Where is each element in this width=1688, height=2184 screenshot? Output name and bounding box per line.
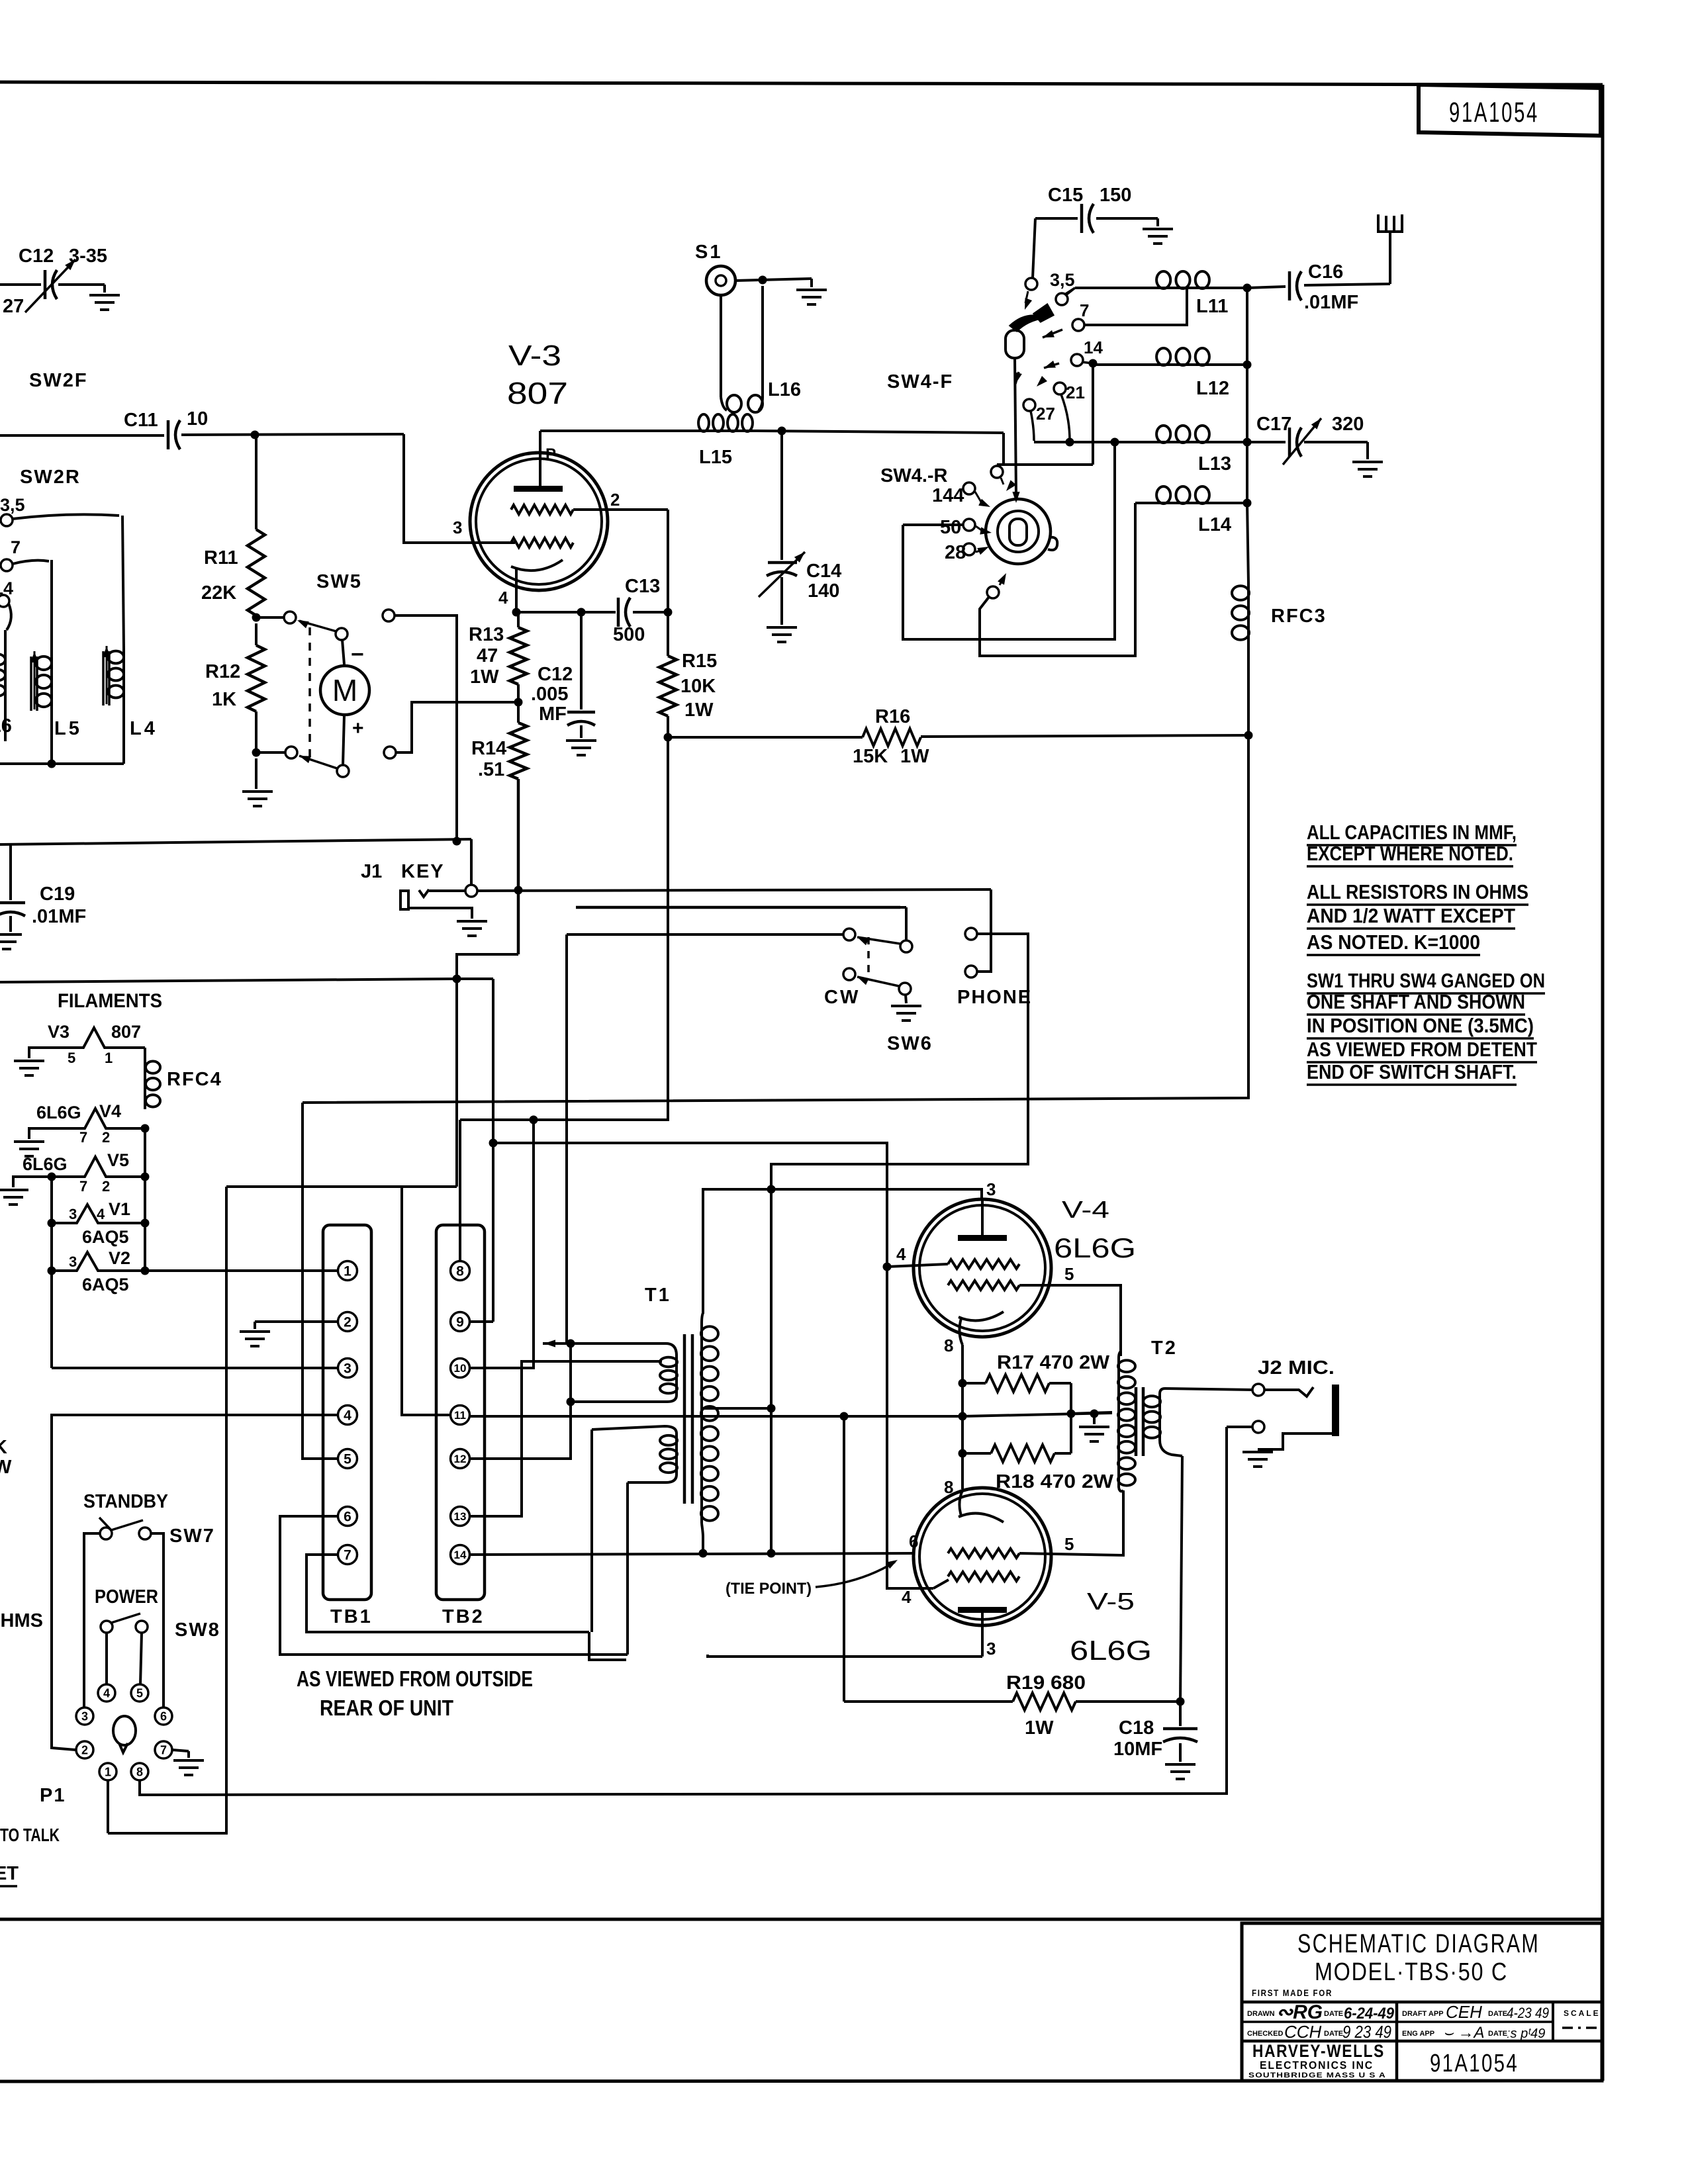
svg-text:6-24-49: 6-24-49 <box>1344 2005 1395 2023</box>
svg-text:R19 680: R19 680 <box>1006 1672 1086 1694</box>
wire R17 R18 right link <box>1070 1383 1072 1453</box>
tube V5 6L6G envelope <box>914 1488 1051 1625</box>
switch SW6 upper pole <box>843 929 855 940</box>
coil L16 link <box>720 295 722 397</box>
svg-text:SW7: SW7 <box>169 1525 215 1547</box>
svg-text:8: 8 <box>944 1336 953 1355</box>
resistor R11 22K <box>248 529 265 615</box>
switch SW4-R rotor <box>986 499 1051 564</box>
svg-text:ALL CAPACITIES IN MMF,: ALL CAPACITIES IN MMF, <box>1307 821 1517 844</box>
grid 1 of V3 <box>511 538 573 547</box>
choke RFC4 <box>144 1048 146 1059</box>
svg-text:3: 3 <box>81 1710 88 1723</box>
wire V4 pin 5 to T2 <box>1019 1285 1121 1356</box>
coil L13 <box>1034 441 1154 443</box>
resistor R15 10K 1W <box>667 612 669 656</box>
grid of V4 <box>948 1259 1019 1269</box>
wire TB2-8 up to screen rail <box>459 1120 461 1261</box>
pin P1-3 <box>76 1707 93 1725</box>
wire SW4F y702 <box>997 463 1093 466</box>
pin P1-8 <box>131 1763 148 1780</box>
svg-text:C16: C16 <box>1308 261 1343 283</box>
svg-text:4: 4 <box>103 1687 110 1700</box>
wire plate to L15 <box>540 430 696 432</box>
svg-text:10K: 10K <box>680 676 716 697</box>
pin P1-2 <box>76 1741 93 1758</box>
svg-text:L13: L13 <box>1198 453 1231 475</box>
svg-text:SW4-F: SW4-F <box>887 371 953 392</box>
title table lines <box>1242 2001 1602 2004</box>
svg-text:R11: R11 <box>204 547 238 569</box>
wire cathode row <box>516 611 616 614</box>
svg-text:DATE: DATE <box>1488 2030 1507 2038</box>
terminal TB1-3 <box>338 1359 357 1378</box>
svg-text:SCALE: SCALE <box>1564 2009 1601 2018</box>
wire L15 to SW4 <box>755 431 1004 433</box>
wire SW6 arm up <box>905 907 908 940</box>
svg-text:POWER: POWER <box>95 1586 158 1608</box>
choke RFC3 <box>1247 503 1248 583</box>
wire J2 sleeve ground <box>1258 1433 1332 1449</box>
resistor R19 680 1W <box>844 1700 1013 1703</box>
cathode of V5 <box>959 1514 1004 1522</box>
terminal TB2-10 <box>451 1359 470 1378</box>
svg-text:AS NOTED. K=1000: AS NOTED. K=1000 <box>1307 931 1480 954</box>
svg-text:RFC3: RFC3 <box>1271 606 1327 627</box>
tube V3 807 envelope <box>470 453 608 590</box>
coil L6 clipped <box>4 630 7 652</box>
T1 plate winding <box>700 1324 703 1524</box>
node R13 R14 junction <box>514 698 523 707</box>
wire junction to R11 <box>255 435 258 529</box>
ground at T2 center <box>1093 1414 1096 1424</box>
svg-text:.51: .51 <box>478 759 504 780</box>
grid 2 of V3 <box>511 505 573 514</box>
capacitor C12 .005 MF bypass <box>580 612 583 709</box>
svg-text:T1: T1 <box>645 1285 671 1306</box>
svg-text:5: 5 <box>1064 1264 1074 1284</box>
wire cathode bus V4 V5 <box>961 1345 964 1489</box>
svg-text:DRAFT APP: DRAFT APP <box>1402 2010 1444 2018</box>
wire pin2 node down <box>667 510 669 612</box>
resistor R18 470 2W <box>962 1452 991 1455</box>
svg-text:ALL RESISTORS IN OHMS: ALL RESISTORS IN OHMS <box>1307 880 1528 903</box>
wire to SW5 upper contact <box>256 616 284 619</box>
svg-text:AS VIEWED FROM DETENT: AS VIEWED FROM DETENT <box>1307 1038 1537 1061</box>
svg-text:12: 12 <box>454 1453 467 1465</box>
svg-text:STANDBY: STANDBY <box>83 1491 168 1512</box>
node RFC4 bottom <box>141 1124 150 1133</box>
svg-text:P1: P1 <box>40 1785 66 1806</box>
wire screen feed down <box>460 737 668 1120</box>
svg-text:L5: L5 <box>54 718 82 739</box>
wire TB2-11 right to audio junctions <box>469 1413 1112 1416</box>
wire C11 to corner <box>181 434 404 435</box>
svg-text:SW8: SW8 <box>175 1619 220 1641</box>
capacitor C17 320 variable <box>1247 441 1286 443</box>
svg-text:V-4: V-4 <box>1062 1196 1109 1223</box>
wire C15 to rotor contact <box>1033 218 1035 278</box>
wire P1-7 to ground <box>172 1750 189 1751</box>
svg-text:DATE: DATE <box>1488 2010 1507 2018</box>
wire coil return rail <box>0 762 124 765</box>
contact 14 of SW4-F <box>1071 354 1083 366</box>
T1 secondary left bottom lead <box>628 1475 677 1482</box>
svg-text:SW2F: SW2F <box>29 370 88 391</box>
svg-text:4: 4 <box>902 1587 912 1607</box>
T2 secondary top to J2 <box>1160 1388 1252 1394</box>
dashed gang link SW5 <box>308 627 311 762</box>
node C12 branch <box>577 608 586 617</box>
svg-text:91A1054: 91A1054 <box>1449 97 1539 128</box>
wire T1 sec bottom down <box>626 1482 629 1655</box>
svg-text:9: 9 <box>456 1315 464 1330</box>
wire TB2-13 to T1 primary top <box>469 1361 662 1516</box>
wire TB1-7 staircase <box>306 1555 589 1632</box>
svg-text:47: 47 <box>477 645 498 666</box>
svg-text:8: 8 <box>944 1477 953 1497</box>
svg-text:1W: 1W <box>470 666 499 688</box>
svg-text:R15: R15 <box>682 651 717 672</box>
svg-text:2: 2 <box>344 1315 352 1330</box>
drawing frame lower margin line <box>0 2081 1603 2081</box>
svg-text:ONE SHAFT AND SHOWN: ONE SHAFT AND SHOWN <box>1307 990 1525 1013</box>
node rail nine <box>489 1139 498 1148</box>
wire J2 ring to P1-8 <box>140 1427 1227 1795</box>
svg-text:2: 2 <box>102 1178 110 1195</box>
svg-text:SOUTHBRIDGE MASS U S A: SOUTHBRIDGE MASS U S A <box>1248 2071 1386 2079</box>
wire T1 sec top down <box>590 1430 593 1632</box>
svg-text:V-3: V-3 <box>508 340 561 372</box>
wire P1-1 to relay bus <box>107 1780 109 1833</box>
svg-text:HARVEY-WELLS: HARVEY-WELLS <box>1252 2041 1385 2061</box>
svg-text:R13: R13 <box>469 624 504 645</box>
wire phone upper to audio <box>771 934 1028 1553</box>
wire rotor stem SW4F to SW4R <box>1015 358 1016 495</box>
T1 core <box>683 1334 686 1504</box>
svg-text:10MF: 10MF <box>1113 1739 1162 1760</box>
svg-text:(TIE POINT): (TIE POINT) <box>726 1580 812 1598</box>
svg-text:T2: T2 <box>1151 1338 1178 1359</box>
svg-text:4: 4 <box>896 1244 906 1264</box>
capacitor C11 10 <box>167 420 170 449</box>
terminal TB1-7 <box>338 1545 357 1565</box>
cathode lead pin 4 <box>515 568 518 611</box>
pin P1-1 <box>99 1763 117 1780</box>
connector S1 <box>706 266 735 295</box>
wire SW7 right to P1-6 <box>151 1533 164 1707</box>
svg-text:AS VIEWED FROM OUTSIDE: AS VIEWED FROM OUTSIDE <box>297 1666 533 1691</box>
wire bias rail upper <box>0 839 471 844</box>
svg-text:PHONE: PHONE <box>957 987 1032 1008</box>
coil L5 <box>50 560 53 654</box>
svg-text:C15: C15 <box>1048 185 1083 206</box>
T1 primary top lead <box>543 1343 677 1355</box>
svg-text:MODEL·TBS·50 C: MODEL·TBS·50 C <box>1315 1958 1508 1986</box>
svg-text:3-35: 3-35 <box>69 246 107 267</box>
svg-text:2: 2 <box>610 490 620 510</box>
svg-text:SW6: SW6 <box>887 1033 933 1054</box>
node L5 return <box>48 760 56 768</box>
T2 secondary bottom lead <box>1160 1440 1182 1456</box>
svg-text:7: 7 <box>344 1548 352 1563</box>
wire from exciter to C11 <box>0 434 164 437</box>
wire SW5 to meter minus <box>342 640 344 664</box>
wire C18 to T2 secondary bottom <box>1180 1456 1182 1702</box>
wire TB1-3 to filament rail <box>52 1367 338 1369</box>
coil L14 <box>1135 502 1154 504</box>
key of plug P1 <box>113 1716 136 1745</box>
wire B+ down right side <box>303 735 1248 1103</box>
screen of V5 <box>948 1572 1019 1581</box>
svg-text:7: 7 <box>1080 300 1089 320</box>
svg-text:C19: C19 <box>40 884 75 905</box>
svg-text:+: + <box>352 717 364 739</box>
wire V5 plate row <box>708 1655 982 1657</box>
contact 7 of SW4-F <box>1072 319 1084 331</box>
svg-text:2: 2 <box>102 1129 110 1146</box>
node pin2 screen junction <box>664 608 673 617</box>
node L11 out <box>1243 284 1252 293</box>
capacitor C16 .01MF <box>1247 287 1286 288</box>
svg-text:4-23 49: 4-23 49 <box>1507 2005 1549 2021</box>
svg-text:6AQ5: 6AQ5 <box>82 1275 129 1295</box>
capacitor C19 .01MF <box>9 844 12 900</box>
wire L15 node to C14 <box>780 431 783 560</box>
svg-text:10: 10 <box>187 408 208 430</box>
node V4 grid branch <box>883 1263 892 1271</box>
contact 3.5 of SW4-F <box>1056 293 1068 305</box>
wire L14 return <box>980 503 1135 656</box>
svg-text:1W: 1W <box>900 746 929 767</box>
svg-text:4: 4 <box>344 1408 352 1424</box>
T1 plate winding top lead to V4 plate <box>702 1189 982 1324</box>
T2 primary winding <box>1117 1358 1120 1488</box>
svg-text:27: 27 <box>3 296 24 317</box>
svg-text:1W: 1W <box>1025 1717 1054 1739</box>
svg-text:6L6G: 6L6G <box>1070 1635 1152 1666</box>
terminal TB1-5 <box>338 1449 357 1469</box>
drawing frame top border <box>0 82 1603 85</box>
svg-text:DATE: DATE <box>1324 2010 1343 2018</box>
plate of V4 <box>958 1235 1007 1241</box>
wire TB2-9 bias <box>469 1320 493 1323</box>
node tie point <box>767 1549 776 1558</box>
svg-text:R16: R16 <box>875 706 910 727</box>
contact 50 <box>963 519 975 531</box>
svg-text:1: 1 <box>344 1264 352 1279</box>
svg-text:27: 27 <box>1036 404 1055 424</box>
svg-text:8: 8 <box>136 1766 143 1779</box>
svg-text:SW4.-R: SW4.-R <box>880 465 948 486</box>
svg-text:V3: V3 <box>48 1022 70 1042</box>
wire TB1-5 to B+ rail <box>303 1103 338 1459</box>
svg-text:SW1 THRU SW4 GANGED ON: SW1 THRU SW4 GANGED ON <box>1307 969 1545 992</box>
svg-text:−: − <box>351 642 364 667</box>
resistor R16 15K 1W <box>668 736 863 739</box>
plate lead to P <box>539 431 541 486</box>
svg-text:CCH: CCH <box>1284 2022 1322 2042</box>
svg-text:10: 10 <box>454 1362 467 1375</box>
pin P1-7 <box>155 1741 172 1758</box>
wire contact 7 to L5 <box>13 561 49 564</box>
svg-text:3,5: 3,5 <box>0 495 25 515</box>
T2 core <box>1135 1387 1138 1456</box>
svg-text:ELECTRONICS INC: ELECTRONICS INC <box>1260 2059 1374 2071</box>
contact 21 of SW4-F <box>1054 383 1066 394</box>
svg-text:SCHEMATIC DIAGRAM: SCHEMATIC DIAGRAM <box>1297 1929 1540 1958</box>
svg-text:V5: V5 <box>107 1150 129 1170</box>
resistor R14 .51 <box>510 723 527 779</box>
switch SW5 lower pole <box>337 765 349 777</box>
svg-text:EXCEPT WHERE NOTED.: EXCEPT WHERE NOTED. <box>1307 842 1513 865</box>
svg-text:L12: L12 <box>1196 378 1229 399</box>
svg-text:.01MF: .01MF <box>1304 292 1358 313</box>
node R16 RFC3 <box>1244 731 1253 740</box>
drawing frame bottom border <box>0 1918 1603 1921</box>
wire contact 14 to L6 <box>7 604 11 630</box>
svg-text:15K: 15K <box>853 746 888 767</box>
svg-text:R18 470 2W: R18 470 2W <box>996 1471 1114 1492</box>
wire SW7 left to P1-3 <box>84 1533 100 1707</box>
wire rail nine to grids <box>493 1143 933 1588</box>
wire R19 feed down <box>843 1416 845 1702</box>
svg-text:21: 21 <box>1066 383 1085 402</box>
svg-text:DATE: DATE <box>1324 2030 1343 2038</box>
title block outer box <box>1242 1923 1602 2081</box>
svg-text:3: 3 <box>344 1361 352 1377</box>
svg-text:TB1: TB1 <box>330 1606 373 1627</box>
T1 primary winding <box>675 1355 678 1395</box>
svg-text:.01MF: .01MF <box>32 906 86 927</box>
dashed gang link SW6 <box>867 937 870 973</box>
screen of V4 <box>948 1281 1019 1290</box>
terminal TB2-11 <box>451 1406 470 1425</box>
svg-text:V4: V4 <box>99 1101 121 1121</box>
svg-text:TB2: TB2 <box>442 1606 485 1627</box>
wire key tip to phone bus <box>477 889 991 891</box>
wire to T2 secondary center <box>1071 1412 1112 1414</box>
wire TB2-14 to tie point <box>469 1553 914 1555</box>
svg-text:J1: J1 <box>361 861 382 882</box>
svg-text:IN POSITION ONE (3.5MC): IN POSITION ONE (3.5MC) <box>1307 1014 1534 1037</box>
svg-text:6L6G: 6L6G <box>23 1154 68 1174</box>
wire S1 to ground <box>735 279 812 281</box>
svg-text:V2: V2 <box>109 1248 130 1268</box>
wire lower jack to R13 R14 junction <box>396 702 516 752</box>
svg-text:R14: R14 <box>471 738 506 759</box>
svg-text:CW: CW <box>824 987 860 1008</box>
capacitor C13 500 <box>617 598 620 627</box>
wire SW6 to ground <box>906 995 906 1003</box>
wire grid2 to pin 2 node <box>573 508 668 511</box>
pin P1-5 <box>131 1684 148 1702</box>
filament ladder rails <box>50 1177 53 1368</box>
svg-text:CHECKED: CHECKED <box>1247 2030 1283 2038</box>
svg-text:1K: 1K <box>212 689 236 710</box>
node R15 R16 junction <box>664 733 673 742</box>
terminal board TB1 <box>323 1225 371 1600</box>
svg-text:7: 7 <box>11 537 21 557</box>
svg-text:4: 4 <box>498 588 508 608</box>
wire CW bus vertical <box>565 934 568 1343</box>
svg-text:13: 13 <box>454 1510 467 1523</box>
svg-text:807: 807 <box>507 376 568 410</box>
svg-text:C12: C12 <box>538 664 573 685</box>
svg-text:500: 500 <box>613 624 645 645</box>
svg-text:5: 5 <box>344 1452 352 1467</box>
wire 14 junction down <box>1092 363 1094 465</box>
svg-text:END OF SWITCH SHAFT.: END OF SWITCH SHAFT. <box>1307 1060 1517 1083</box>
contact top of SW4-R <box>991 466 1003 478</box>
terminal TB1-2 <box>338 1312 357 1332</box>
T2 secondary winding <box>1158 1394 1161 1440</box>
wire TB1-2 to ground <box>255 1320 338 1323</box>
wire V2 to TB1-1 <box>145 1269 338 1272</box>
svg-text:2: 2 <box>81 1744 88 1757</box>
rotor of SW4-F <box>1010 316 1045 331</box>
svg-text:R12: R12 <box>205 661 240 682</box>
capacitor C14 140 variable <box>768 561 797 565</box>
terminal TB2-9 <box>451 1312 470 1332</box>
svg-text:KEY: KEY <box>401 861 445 882</box>
svg-text:C17: C17 <box>1256 414 1291 435</box>
meter jack tip contact lower <box>384 747 396 758</box>
svg-text:R17 470 2W: R17 470 2W <box>997 1352 1110 1373</box>
svg-text:3: 3 <box>453 518 462 537</box>
svg-text:3: 3 <box>986 1639 996 1659</box>
pin P1-4 <box>98 1684 115 1702</box>
wire to contact 50 <box>903 523 963 526</box>
jack PHONE contacts <box>965 928 977 940</box>
svg-text:L11: L11 <box>1196 296 1228 317</box>
svg-text:RFC4: RFC4 <box>167 1069 222 1090</box>
antenna terminal <box>1389 233 1391 284</box>
svg-text:320: 320 <box>1332 414 1364 435</box>
terminal TB1-4 <box>338 1406 357 1425</box>
terminal TB2-8 <box>451 1261 470 1281</box>
svg-text:AND 1/2 WATT EXCEPT: AND 1/2 WATT EXCEPT <box>1307 904 1515 927</box>
svg-text:W: W <box>0 1457 12 1478</box>
svg-text:L16: L16 <box>768 379 801 400</box>
wire rail to TB2-9 bus <box>492 979 494 1322</box>
svg-text:C13: C13 <box>625 576 660 597</box>
svg-text:5: 5 <box>68 1050 75 1066</box>
capacitor C12 3-35 variable <box>44 270 47 299</box>
svg-text:807: 807 <box>111 1022 141 1042</box>
T1 primary bottom lead <box>571 1395 677 1402</box>
resistor R12 1K <box>255 623 258 645</box>
node R12 bottom <box>252 749 261 757</box>
svg-text:∾RG: ∾RG <box>1276 2001 1323 2023</box>
slug core of L4 <box>102 651 105 705</box>
svg-text:28: 28 <box>945 542 966 563</box>
wire V4 cathode pin 8 <box>959 1318 962 1345</box>
svg-text:3: 3 <box>69 1253 77 1270</box>
svg-text:KET: KET <box>0 1863 19 1884</box>
wire L11 tap down to contact 7 <box>1084 289 1187 325</box>
svg-text:6: 6 <box>344 1510 352 1525</box>
svg-text:1: 1 <box>105 1050 113 1066</box>
svg-text:6L6G: 6L6G <box>36 1103 81 1122</box>
svg-text:91A1054: 91A1054 <box>1430 2050 1519 2077</box>
tube V4 6L6G envelope <box>914 1199 1051 1337</box>
wire R14 down across key line <box>517 779 520 954</box>
svg-text:7: 7 <box>160 1744 167 1757</box>
svg-text:L6: L6 <box>0 715 12 737</box>
wire key bus down <box>470 839 473 885</box>
terminal TB2-12 <box>451 1449 470 1469</box>
